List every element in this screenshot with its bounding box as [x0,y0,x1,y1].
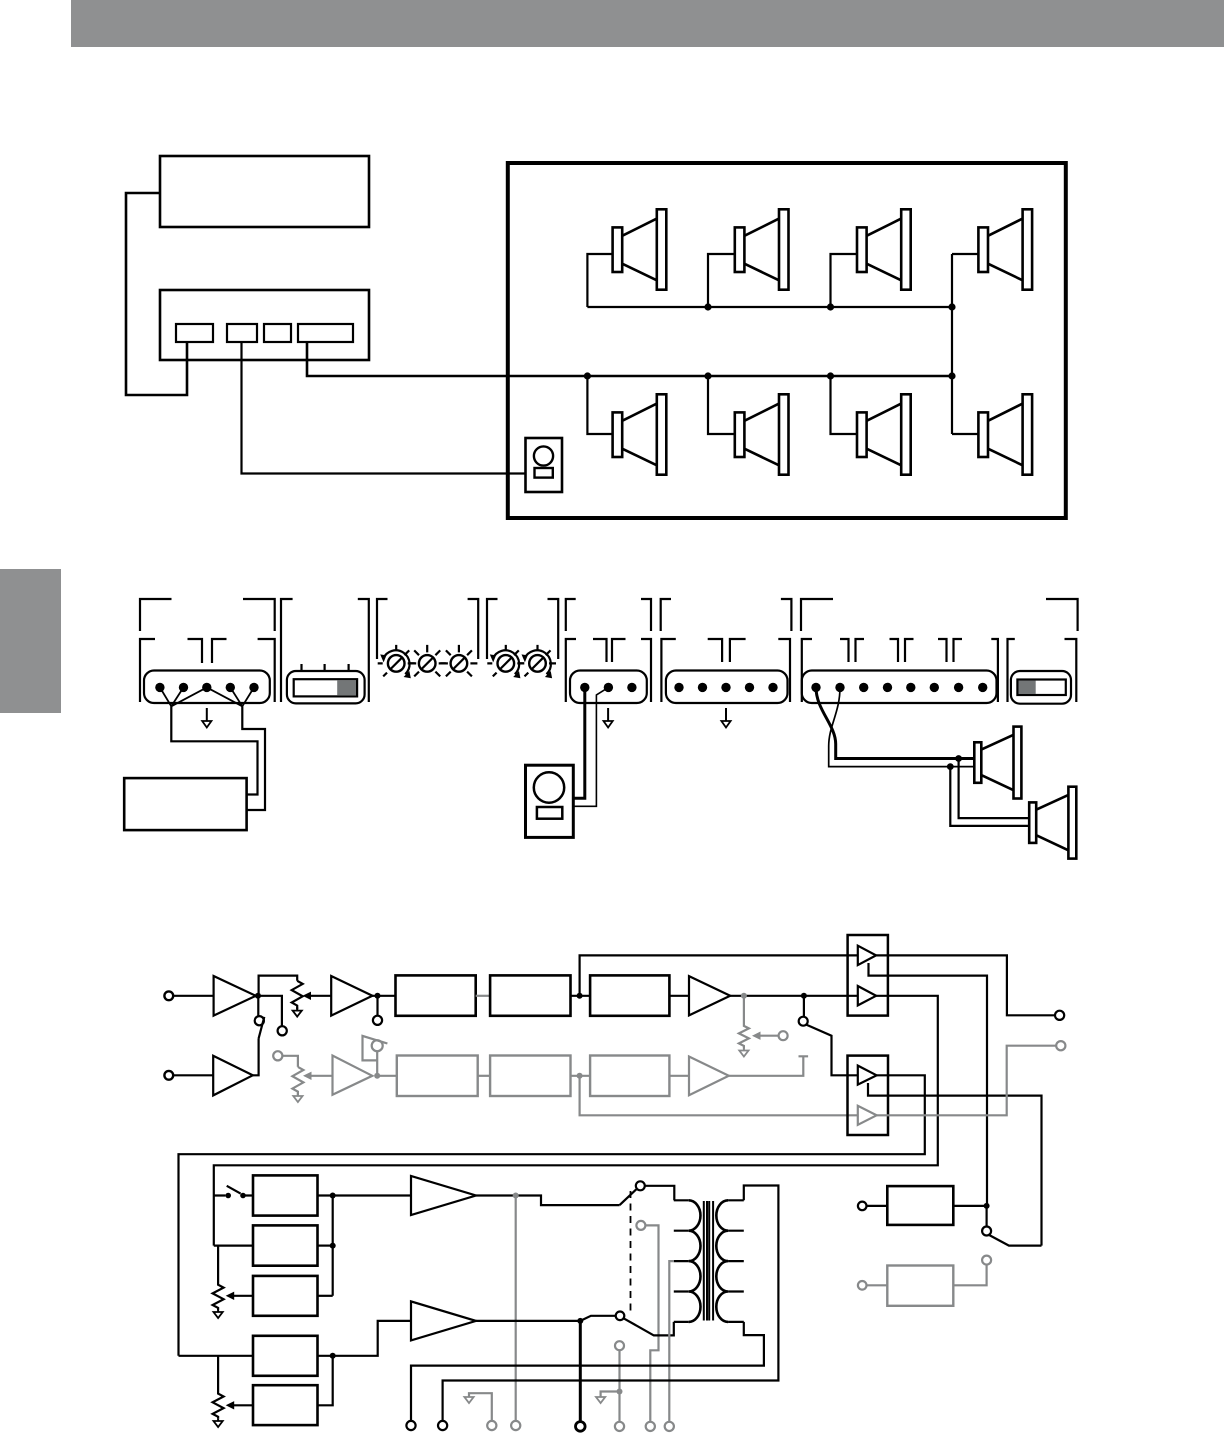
wire T2 dot2 to attenuator [573,687,608,806]
bracket group4 row1 [566,599,651,631]
terminal strip T3 [666,671,788,704]
slide switch SW1 [287,671,365,703]
wire to contact S1b [258,996,282,1026]
terminal strip T1 [144,671,270,704]
bracket group5 row2 [661,639,790,702]
gray wire to terminal [645,1225,658,1421]
sidebar tab [0,569,61,713]
speaker SP8 [978,394,1032,474]
gray ground branch [601,1392,620,1398]
attenuator AT1 [526,438,563,492]
wire strip to amp left [171,706,257,794]
primary center tap gray [669,1261,674,1422]
secondary bottom to terminal [411,1322,764,1421]
gray connector [571,1075,591,1077]
attenuator AT2 [526,765,574,837]
resistor R2 branch [213,1356,224,1419]
transformer T1 primary stubs [674,1200,689,1322]
gray node on P1 output [513,1193,519,1199]
RY2 lower gray output to jack B [877,1046,1057,1116]
RY1 buffer lower [858,986,876,1005]
slide switch SW2 [1011,671,1071,704]
gray terminal with ground [469,1393,492,1421]
bold wire P2 node to terminal [579,1321,582,1421]
header bar [71,0,1224,47]
tuner box [160,156,369,227]
black terminal [406,1421,415,1430]
contact circle S1b [278,1026,287,1035]
block BD input [179,1355,254,1357]
junction dots speaker A wires [955,755,962,762]
wire T4 dot2 to speaker A (thin) [829,687,975,766]
relay switch contact [985,1206,987,1227]
gray block GB2 [490,1056,570,1097]
amplifier box [160,290,369,360]
speaker SP6 [735,394,789,474]
speaker output jack A [1055,1011,1064,1020]
bracket group6 row2 [802,639,998,702]
slide switch SW1 ticks [302,664,349,671]
ground [214,1419,223,1427]
input jack CH2 [164,1071,173,1080]
RY2 upper output feedback loop [179,1075,925,1356]
stub wires top row [587,254,978,307]
transformer core [704,1201,713,1321]
node after A1 [255,993,261,999]
wire [867,1205,888,1207]
bracket knob group1 [377,599,478,659]
block K output [953,1205,986,1207]
gray wire A3 to GB1 [377,1075,397,1077]
op-amp A5 [689,976,730,1015]
summing vertical [332,1196,334,1296]
block BB [253,1225,318,1265]
power amp P1 [411,1176,476,1215]
gray alternate contact [636,1221,645,1230]
bracket switch group [281,599,369,702]
switch lever S2 + wire to relay RY2 upper [807,1025,858,1076]
wire tuner to amp terminal A [126,193,187,395]
gray block GB3 [590,1056,669,1097]
relay unit RY1 [848,935,888,1016]
terminal B [227,324,257,342]
junction dots bottom bus [584,372,591,379]
ground [293,1007,302,1016]
junction dots top bus [704,303,711,310]
speaker SPA [974,727,1021,799]
op-amp A2 [213,1056,253,1096]
wire [173,1074,213,1076]
secondary top loop to terminal [443,1186,779,1421]
gray alternate contact SW-B [615,1341,624,1350]
stub wires bottom row [587,376,978,434]
terminal strip T4 [802,671,997,704]
wire T4 dot1 to speaker A (thick) [816,687,974,758]
wire [669,995,689,997]
black terminal [576,1422,586,1432]
protection block K input jack [858,1202,867,1211]
RY2 tap wire [868,1083,1042,1246]
resistor R1 branch [213,1246,224,1310]
gray connector [669,1075,689,1077]
gray terminal [511,1421,520,1430]
speaker SP1 [613,209,667,289]
speaker switch SW-A lever [620,1189,637,1205]
gray block GB1 [397,1056,478,1097]
contact circle under A4 [373,1016,382,1025]
relay unit RY2 [848,1056,889,1135]
block B3 [590,975,669,1015]
switch contact wire [257,996,259,1016]
strip T4 screws [811,683,820,692]
speaker SPB [1029,787,1076,859]
RY1 upper output to speaker jack A [876,955,1055,1015]
strip T1 screws [155,683,164,692]
gray block L output [953,1265,986,1286]
speaker SP5 [613,394,667,474]
resistor VR2 [292,1067,303,1095]
wiper arrow VR2 [311,1075,333,1077]
strip T3 screws [674,683,683,692]
BE out [318,1356,333,1406]
ground arrow strip T2 [604,708,613,728]
wire with node [571,995,591,997]
gray contact [982,1256,991,1265]
P1 output wire to speaker switch [476,1196,620,1206]
bus link wire [951,254,953,434]
wire terminal B to attenuator [242,342,527,474]
knob K3 [440,645,477,677]
speaker switch SW-B contact [616,1312,625,1321]
gray wiper arrow [760,1035,779,1037]
wire BA out to power amp P1 [318,1194,412,1196]
terminal strip T2 [570,671,647,704]
gray block L input jack [858,1281,867,1290]
gray op-amp A3 [333,1056,373,1095]
speaker SP2 [735,209,789,289]
switch lever [227,1186,241,1194]
wire [372,996,395,1016]
gray wiper circle [779,1031,788,1040]
speaker room box [508,163,1066,518]
bracket group7 row2 [1008,639,1077,702]
block BD [253,1336,318,1376]
ground [739,1049,748,1057]
gray node between GB2-GB3 [577,1073,583,1079]
speaker output jack B [1056,1041,1065,1050]
bracket group5 row1 [661,599,792,631]
gray contact circle [372,1040,383,1051]
wiper arrow VR1 [311,995,332,997]
switch lever S1 [259,1017,265,1039]
RY1 buffer upper [858,946,876,965]
gray switch flag [363,1036,388,1076]
wire strip to amp right [242,706,265,810]
bracket group1 row1 [140,599,275,631]
op-amp A4 [331,976,372,1016]
RY2 buffer lower (gray) [858,1106,877,1125]
wire to transformer primary top [645,1186,675,1201]
bracket group4 row2 [566,639,651,702]
gray terminal [615,1422,624,1431]
relay switch lever [989,1235,1042,1246]
transformer T1 secondary winding [716,1200,728,1322]
gray terminal [665,1422,674,1431]
node before output switch [801,993,807,999]
RY1 tap wire [869,963,988,1206]
ground [214,1310,223,1318]
SW-B lever to primary bottom [624,1318,674,1335]
gray block L [887,1266,953,1306]
wire T2 dot1 to attenuator [573,687,585,798]
gray pot VR3 [739,996,749,1049]
gray wire to terminal [515,1196,517,1422]
gray wire to pot VR2 [282,1056,298,1067]
input jack CH1 [164,991,173,1000]
strip T2 screws [580,683,589,692]
top bus wire [587,306,952,308]
switch contacts [225,1193,231,1199]
BD out to power amp P2 [318,1321,412,1356]
block K [887,1186,953,1225]
feedback wire to volume pot VR1 [259,976,298,996]
block B1 [396,975,476,1015]
gray wire [867,1284,888,1286]
block BA [253,1175,318,1215]
gray connector [478,1075,490,1077]
speaker SP4 [978,209,1032,289]
wire node to relay RY1 upper [580,955,858,995]
knob K2 [409,645,446,677]
terminal A [176,324,213,342]
ground arrow strip T1 [202,708,211,728]
wire lever to CH2 buffer [253,1039,259,1076]
gray op-amp A6 [689,1057,729,1096]
speaker SP3 [857,209,911,289]
contact circle S2 [799,1017,808,1026]
gray channel line to relay RY2 lower [580,1076,858,1116]
gray node after A3 [374,1073,380,1079]
terminal D [298,324,353,342]
resistor VR1 [292,981,303,1010]
op-amp A1 [214,976,256,1016]
wire terminal D to speaker bus [307,342,952,376]
knob K5 [519,645,556,678]
transformer T1 secondary stubs [728,1200,744,1322]
contact circle [636,1181,645,1190]
wire [173,995,213,997]
ganged switch dashed link [630,1191,632,1316]
block BC [253,1276,318,1316]
black terminal [438,1421,447,1430]
knob K1 [378,645,415,678]
gray connector [476,995,490,997]
power amp P2 [411,1301,476,1340]
contact wire [803,996,805,1017]
block BB input [214,1244,253,1246]
block BE [253,1385,318,1425]
RY1 lower output feedback loop [214,996,938,1246]
amplifier box [124,778,246,830]
gray terminal [646,1422,655,1431]
gray wire to terminal [618,1350,620,1422]
ground [293,1093,302,1102]
contact circle S1a [255,1016,264,1025]
bracket group6 row1 [801,599,1078,631]
gray node on A5 output [741,993,747,999]
P2 output wire [476,1316,616,1321]
node after A4 [375,993,381,999]
terminal C [264,324,291,342]
speaker SP7 [857,394,911,474]
gray input contact CH2 [273,1051,282,1060]
knob K4 [487,645,524,678]
feed wire to block BA with muting switch [214,1194,253,1196]
BC out [318,1295,333,1297]
gray output stub with T cap [729,1056,808,1076]
RY2 buffer upper [858,1066,877,1085]
BB out [318,1244,333,1246]
block B2 [490,975,570,1015]
BC wiper arrow into R1 [234,1295,253,1297]
bracket group1 row2 [140,639,275,702]
wire to relay RY1 lower [730,995,858,997]
BE wiper arrow into R2 [234,1404,253,1406]
bracket knob group2 [487,599,558,659]
ground arrow strip T3 [721,708,730,728]
transformer T1 primary winding [689,1200,701,1322]
wires to speaker B [950,759,1029,826]
speaker wires from strip T1 [160,687,254,706]
